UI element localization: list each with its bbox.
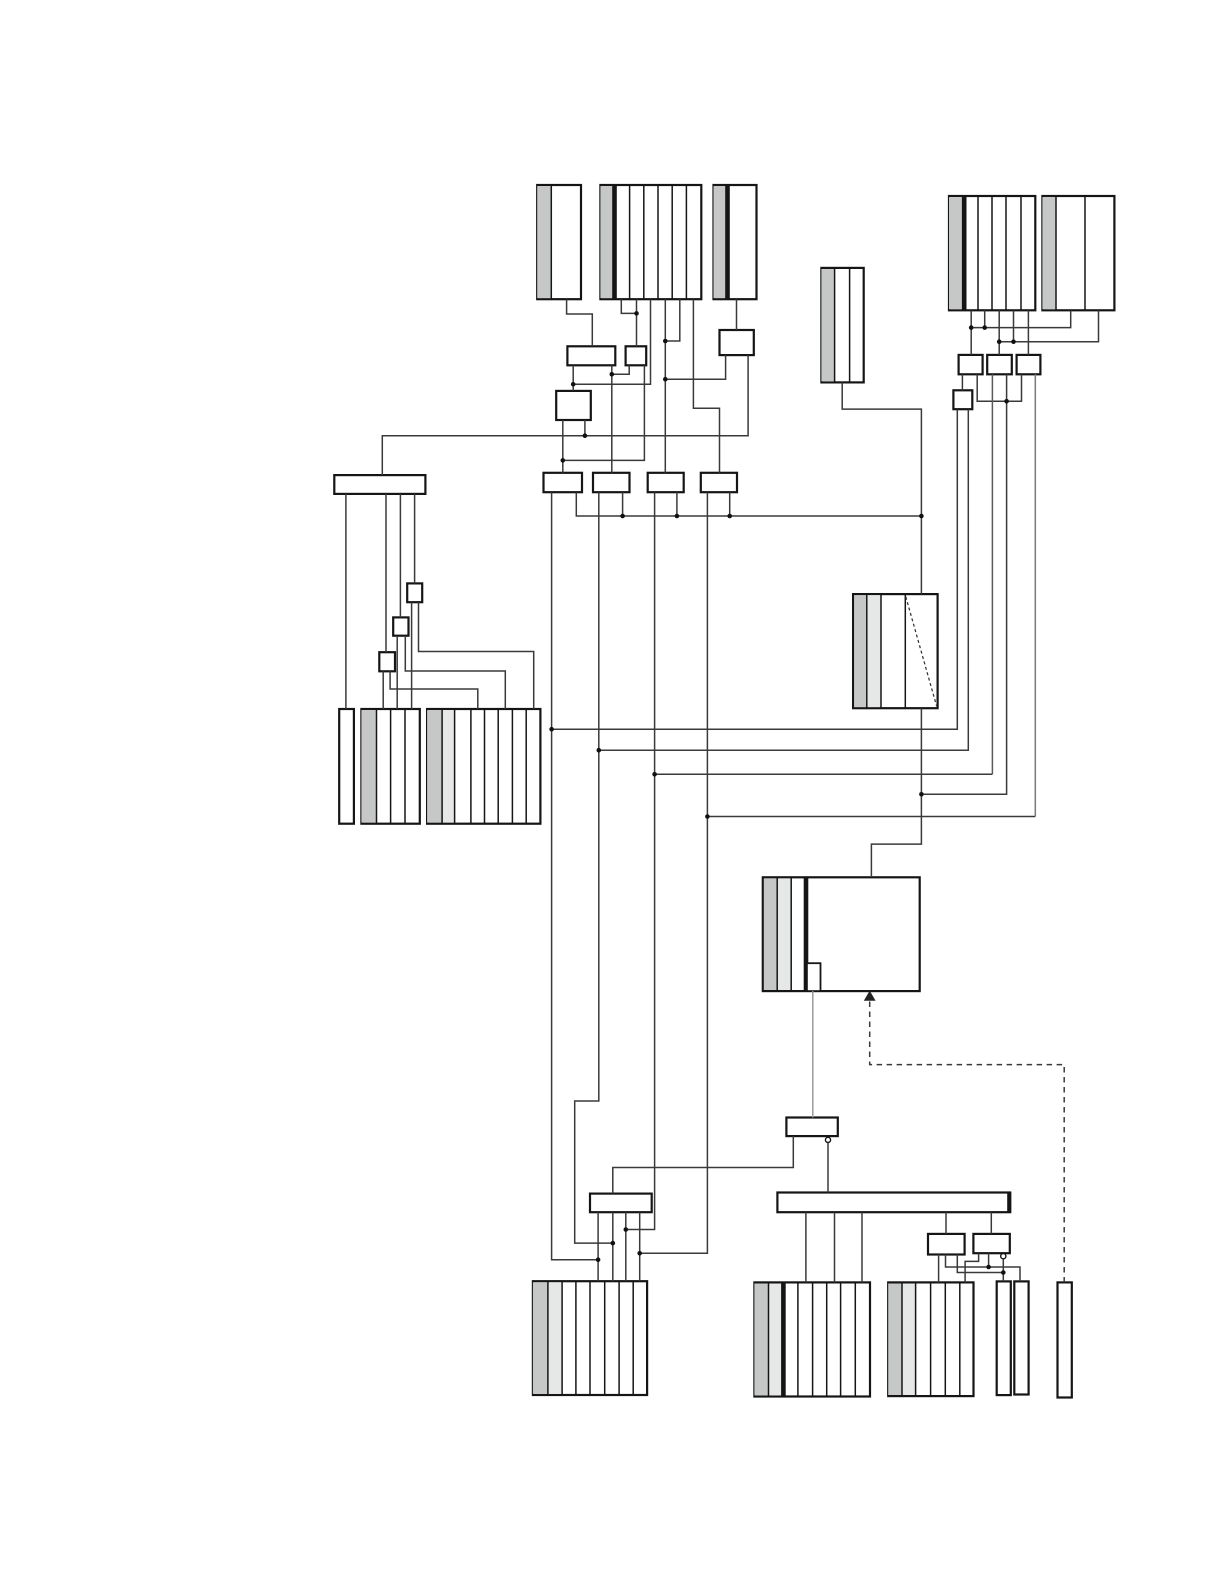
wire SM out to LB: [613, 1136, 794, 1194]
box T3: [1017, 355, 1041, 374]
wire T4 out2 long: [599, 409, 969, 750]
wire W out4 to S1: [414, 494, 416, 584]
box W: [334, 475, 425, 494]
wire B4 out long: [640, 492, 708, 1253]
wire WB out2: [834, 1212, 836, 1282]
register R6: [1042, 196, 1114, 310]
junction dots: [549, 311, 1016, 1275]
latch M1: [567, 346, 615, 365]
wire R5 bit3 to T2: [998, 310, 1000, 355]
wire T2 out2 long: [921, 374, 1006, 794]
wire M4 out1 join: [665, 355, 725, 379]
wire S1 out1 to RegL1: [411, 602, 413, 709]
box S3: [379, 652, 395, 671]
wire M2 out2 join B1 net: [563, 365, 645, 460]
wire T2 out1 long horizontal: [655, 773, 993, 775]
wire M3 out1 to B1: [562, 420, 564, 473]
register RegL2: [427, 709, 540, 824]
wire T3 out2 long horizontal: [707, 816, 1035, 818]
box B2: [593, 473, 630, 492]
wire T3 out2 long vertical: [1034, 374, 1036, 816]
box T1: [959, 355, 983, 374]
wire T2 out1 long vertical: [991, 374, 993, 774]
wire B2 out long: [575, 492, 613, 1243]
wire SB1 out2: [946, 1255, 1021, 1282]
wire WB out1: [805, 1212, 807, 1282]
register RegB1: [533, 1281, 647, 1395]
dashed feedback wire: [870, 1002, 1064, 1283]
wire B row bus: [576, 492, 921, 516]
wire R5 bit1 to T1: [970, 310, 972, 355]
wire R6 bit1 bus: [971, 310, 1070, 327]
wire LB out2: [612, 1212, 614, 1281]
arrowhead into big box: [864, 991, 876, 1001]
register RegB3: [888, 1282, 973, 1396]
wire B2 out2: [622, 492, 624, 516]
wire B3 out2: [676, 492, 678, 516]
wire W out3 to S2: [399, 494, 401, 618]
cell NC2: [1014, 1281, 1028, 1394]
wire S1 out2 to RegL2: [419, 602, 534, 709]
wire SB1 out3: [957, 1255, 1003, 1273]
wire S3 out1 to RegL1: [382, 671, 384, 709]
wire S2 out1 to RegL1: [396, 636, 398, 709]
wire T1 out1 to T4: [961, 374, 963, 390]
box SB1: [928, 1234, 965, 1255]
cell CL: [339, 709, 354, 824]
wire notch to SM: [812, 991, 814, 1117]
wire R2 bit1 jog: [621, 299, 636, 313]
bubble under SM: [825, 1137, 830, 1142]
wire R5 bit2 stub: [984, 310, 986, 327]
wire R5 bit4 stub: [1013, 310, 1015, 341]
wire SM bubble to WB: [827, 1143, 829, 1193]
wire SB2 out2 stub: [988, 1253, 990, 1267]
notch box: [807, 963, 821, 991]
cell NC3: [1058, 1282, 1072, 1397]
wire R2 bit4 to B3: [664, 299, 666, 473]
wire R2 bit3 to M1 net: [573, 299, 650, 384]
wire W out1 to cell CL: [345, 494, 347, 709]
wire M3 out2 stub: [584, 420, 586, 436]
wire SB1 out1: [938, 1255, 940, 1283]
register R3: [714, 185, 757, 299]
big box: [763, 877, 920, 991]
wire LB out1: [597, 1212, 599, 1281]
bubble under SB2: [1001, 1254, 1006, 1259]
wire R4 out to mux: [842, 382, 921, 594]
wire B1 out long: [552, 492, 599, 1259]
register R4: [821, 268, 863, 383]
wire WB to SB2: [990, 1212, 992, 1234]
cell NC1: [997, 1281, 1011, 1395]
wire R5 bit5 to T3: [1027, 310, 1029, 355]
left box LB: [590, 1194, 652, 1213]
box SB2: [973, 1234, 1009, 1253]
latch M3: [556, 391, 591, 420]
wire M2 out1 join: [612, 365, 629, 374]
register R2: [600, 185, 701, 299]
wire WB out3: [861, 1212, 863, 1282]
latch M4: [720, 330, 754, 355]
wire mux out to big box: [871, 708, 921, 877]
box B3: [648, 473, 684, 492]
wire R6 bit2 bus: [999, 310, 1098, 341]
box T2: [987, 355, 1012, 374]
wire R2 bit5 jog: [665, 299, 680, 341]
wire M4 out2 to box W: [382, 355, 748, 475]
box T4: [953, 390, 972, 409]
box S1: [407, 583, 422, 602]
wire W out2 to S3: [385, 494, 387, 652]
register RegB2: [754, 1282, 870, 1396]
register RegL1: [361, 709, 419, 824]
latch M2: [626, 346, 647, 365]
wire M1 out to M3: [572, 365, 574, 391]
wire M1 out2 to B2: [611, 365, 613, 473]
wire B4 out2: [729, 492, 731, 516]
wire R2 bit2 to M2: [636, 299, 638, 346]
wide box WB: [777, 1193, 1010, 1213]
wire SB2 out1: [965, 1253, 979, 1282]
register R5: [949, 196, 1035, 310]
wire T4 out1 long: [552, 409, 958, 729]
mux table with diagonal: [853, 594, 938, 708]
box B4: [701, 473, 737, 492]
wire SB2 bubble to NC1: [1002, 1259, 1004, 1282]
wire R2 bit6 to B4: [693, 299, 719, 473]
wire LB out4: [639, 1212, 641, 1281]
wire WB to SB1: [945, 1212, 947, 1234]
wire LB out3: [625, 1212, 627, 1281]
wire T1-T3 link: [977, 374, 1021, 401]
wire R1 out to M1: [567, 299, 593, 346]
wire S3 out2 to RegL2: [390, 671, 478, 709]
small box SM: [786, 1118, 837, 1137]
box S2: [393, 617, 408, 635]
box B1: [544, 473, 583, 492]
wire S2 out2 to RegL2: [405, 636, 505, 709]
register R1: [537, 185, 581, 299]
wire R3 out to M4: [736, 299, 738, 330]
wire B3 out long: [626, 492, 655, 1229]
